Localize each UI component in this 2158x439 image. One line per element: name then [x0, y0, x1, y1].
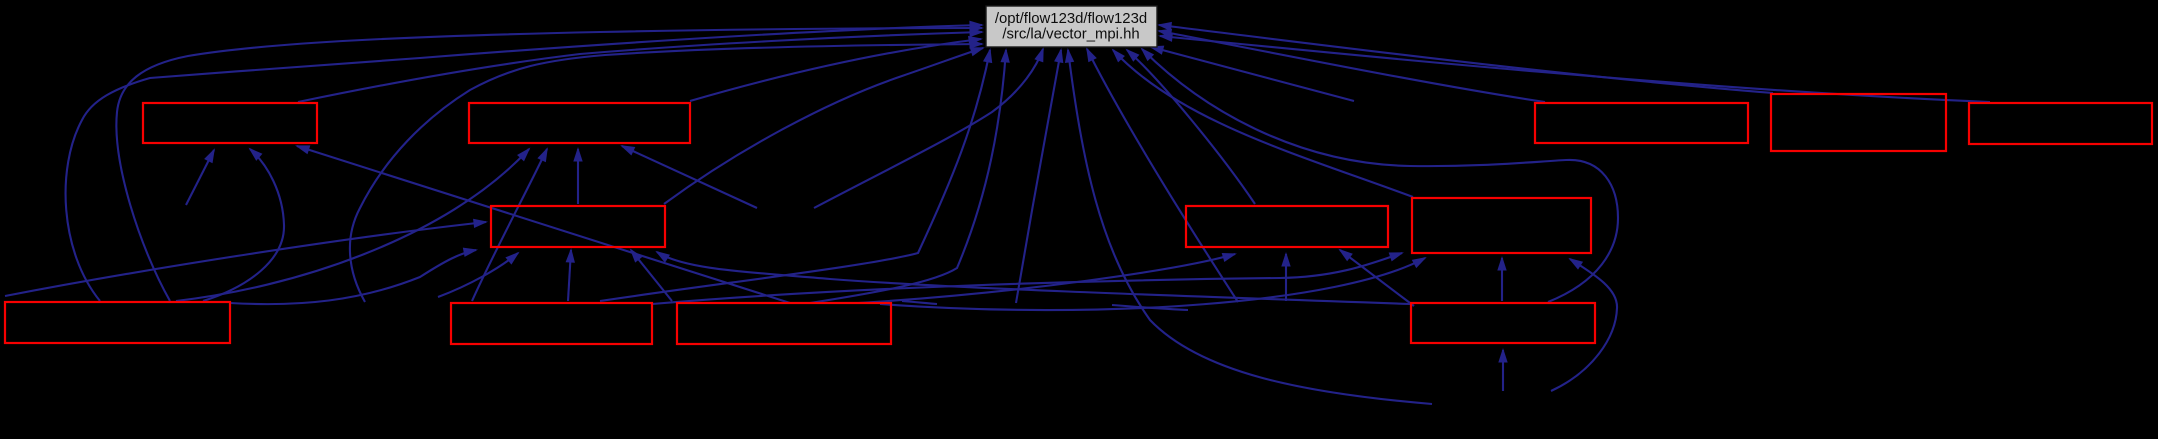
node box F	[677, 303, 891, 344]
wire edge J to T	[1159, 31, 1545, 102]
wire edge C to T	[664, 48, 983, 204]
wire edge F to T elbow	[810, 50, 1006, 303]
wire edge G to T	[1127, 50, 1255, 204]
wire edge H to T	[1113, 50, 1413, 197]
wire edge D to T inner arc	[116, 28, 982, 301]
node box K	[1771, 94, 1946, 151]
wire edge F to C	[631, 250, 672, 301]
wire truncated sweep edge into T from bottom right	[1068, 50, 1432, 404]
wire edge D to C left edge	[5, 222, 486, 296]
wire edge D to B curved	[176, 149, 529, 301]
wire truncated edge into T (straight, from right)	[1151, 47, 1354, 101]
wire edge A to T	[298, 32, 982, 102]
wire truncated edge into I bottom	[1502, 350, 1504, 391]
wire truncated arc edge into T (left)	[350, 44, 982, 302]
node box D	[5, 302, 230, 343]
wire truncated edge into G bottom	[1285, 254, 1287, 301]
node box G	[1186, 206, 1388, 247]
wire long edge F to H	[880, 258, 1425, 310]
wire edge I to H vertical	[1501, 258, 1503, 301]
node box L	[1969, 103, 2152, 144]
wire truncated edge into C bottom	[438, 253, 518, 297]
wire long edge F to G	[858, 254, 1235, 303]
wire edge C to B vertical	[577, 149, 579, 204]
wire truncated edge into T (short)	[814, 49, 1043, 208]
wire edge E to B	[472, 149, 547, 301]
node box E	[451, 303, 652, 344]
wire small truncated segment near F	[902, 301, 937, 304]
node box J	[1535, 103, 1748, 143]
wire small truncated segment below G	[1112, 305, 1188, 310]
wire truncated edge into A bottom	[186, 150, 214, 205]
svg-text:/opt/flow123d/flow123d: /opt/flow123d/flow123d	[995, 11, 1147, 27]
wire edge E to T elbow	[600, 50, 990, 301]
wire edge I to T with right loop	[1142, 49, 1618, 302]
wire edge K to T	[1159, 25, 1773, 93]
wire long edge E to H	[652, 253, 1402, 304]
wire edge E to C vertical	[568, 250, 571, 301]
node box H	[1412, 198, 1591, 253]
wire edge F to A straight	[297, 146, 790, 303]
wire edge D to T big left sweep	[66, 25, 982, 301]
wire edge L to T	[1160, 36, 1990, 102]
node box B	[469, 103, 690, 143]
wire long edge I to C	[657, 252, 1410, 304]
wire edge B to T	[690, 39, 981, 101]
node box C	[491, 206, 665, 247]
wire truncated vertical edge into T	[1016, 50, 1061, 303]
wire edge D to A curved	[203, 149, 284, 301]
svg-text:/src/la/vector_mpi.hh: /src/la/vector_mpi.hh	[1002, 27, 1139, 43]
wire truncated edge into B bottom	[622, 146, 757, 208]
wire edge D to C sagging	[230, 250, 476, 304]
wire truncated edge into T (mid)	[1087, 49, 1238, 302]
node T main node /src/la/vector_mpi.hh	[986, 6, 1157, 47]
node box I	[1411, 303, 1595, 343]
wire edge I to G	[1340, 250, 1414, 306]
wire truncated loop edge into H bottom right	[1551, 259, 1617, 391]
node box A	[143, 103, 317, 143]
